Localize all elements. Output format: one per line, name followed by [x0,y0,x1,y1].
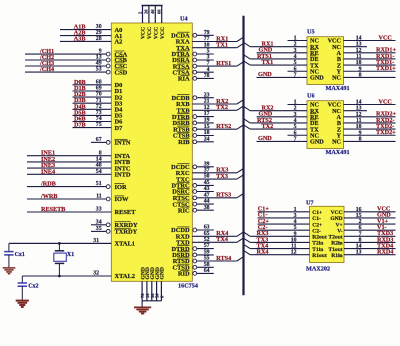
value label MAX491 of U5 [326,85,350,92]
svg-text:VCC: VCC [379,34,392,41]
wire/pin GND 4 of U4 [155,267,161,301]
svg-text:59: 59 [204,250,210,256]
power rail VCC top [142,5,163,7]
svg-text:XTAL2: XTAL2 [115,273,135,280]
svg-text:57: 57 [204,243,210,249]
svg-text:45: 45 [204,180,210,186]
svg-text:GND: GND [258,71,272,78]
svg-text:66: 66 [157,9,162,14]
svg-text:/RDB: /RDB [40,181,56,188]
wire/pin 65 RXD net RX4 [176,230,244,240]
svg-text:/CH4: /CH4 [39,66,54,73]
wire/pin 58 CTSD [173,262,214,272]
wire/pin 49 CSC net /CH3 [25,60,128,70]
ground for Cx1 [3,268,16,274]
svg-text:1: 1 [294,207,297,213]
wire/pin 31 XTAL1 [9,238,135,248]
svg-text:RIB: RIB [178,139,190,146]
svg-text:VCC: VCC [154,27,160,39]
wire/pin 8 NC of U5 [332,72,395,81]
node junction crystal top [58,242,61,245]
svg-text:14: 14 [356,244,362,250]
wire/pin VCC 1 of U4 [137,6,146,40]
wire/pin 3 RE of U6 [257,111,319,121]
wire/pin 4 CTSA [173,67,214,77]
svg-text:T1in: T1in [312,247,323,253]
svg-text:19: 19 [204,118,210,124]
svg-text:U7: U7 [306,199,314,206]
svg-text:C2-: C2- [312,228,321,234]
wire/pin 11 T1in of U7 net TX4 [244,242,324,252]
svg-text:GND: GND [310,75,324,82]
svg-text:A2: A2 [115,39,123,46]
wire/pin GND 5 of U4 [159,267,165,301]
svg-text:77: 77 [204,36,210,42]
wire/pin 77 RXA net RX1 [176,35,244,45]
wire/pin 9 CSA net /CH1 [25,48,128,58]
svg-text:3: 3 [294,48,297,54]
svg-text:50: 50 [204,174,210,180]
wire/pin 50 TXC net TX3 [176,173,243,183]
svg-text:12: 12 [356,112,362,118]
wire/pin 69 D1 net D1B [73,85,123,95]
wire/pin 4 DE of U5 [244,53,319,63]
wire/pin 10 Z of U5 [337,59,396,69]
wire/pin 11 B of U6 [337,117,396,127]
svg-text:TXRDY: TXRDY [115,229,138,236]
svg-text:2: 2 [359,219,362,225]
svg-text:43: 43 [204,186,210,192]
wire/pin 68 D0 net D0B [73,79,123,89]
wire/pin 3 RE of U5 [257,47,319,57]
wire/pin 7 T2out of U7 net TXD3 [329,230,396,240]
svg-text:Cx1: Cx1 [15,252,25,258]
wire/pin 2 RX of U5 [244,40,320,50]
svg-text:7: 7 [294,136,297,142]
wire/pin 74 D6 net D6B [73,116,124,126]
svg-text:18: 18 [204,130,210,136]
wire/pin 21 RXB net RX2 [176,98,243,108]
svg-text:RTS3: RTS3 [216,192,231,199]
svg-text:5: 5 [294,124,297,130]
svg-text:16: 16 [356,207,362,213]
wire/pin 75 D7 net D7B [73,122,124,132]
svg-text:33: 33 [96,207,102,213]
svg-text:R2out: R2out [312,235,327,241]
wire/pin 18 CTSB [173,130,214,140]
wire/pin 12 TXB net TX2 [176,104,243,114]
svg-text:RTS4: RTS4 [216,255,231,262]
svg-text:14: 14 [96,157,102,163]
wire/pin 5 TX of U6 [244,123,320,133]
wire/pin 1 NC of U6 [288,100,319,109]
svg-text:D7B: D7B [74,122,86,129]
svg-text:RX4: RX4 [257,249,269,256]
svg-text:4: 4 [294,118,297,124]
wire/pin 2 V+ of U7 net V1+ [335,218,395,228]
wire/pin 14 INTB net INE2 [27,156,131,166]
wire/pin 11 B of U5 [337,53,396,63]
svg-text:U4: U4 [180,16,188,23]
svg-text:VCC: VCC [141,27,147,39]
svg-text:11: 11 [291,244,297,250]
wire/pin 1 NC of U5 [288,36,319,45]
wire/pin 13 R1in of U7 net RXD4 [331,249,395,259]
wire/pin 4 DE of U6 [244,117,319,127]
wire/pin 48 INTC net INE3 [27,162,131,172]
svg-text:68: 68 [96,79,102,85]
svg-text:/WRB: /WRB [40,193,58,200]
wire/pin 55 RTSD net RTS4 [173,255,244,265]
wire/pin 78 RIA [178,73,214,83]
wire/pin 70 D2 net D2B [73,91,123,101]
svg-text:RIA: RIA [178,76,190,83]
wire/pin 32 XTAL2 [22,270,135,280]
svg-text:A3B: A3B [74,35,86,42]
wire/pin 16 VCC of U7 net VCC [331,206,396,216]
wire/pin 13 CSB net /CH2 [25,54,128,64]
wire/pin 5 DTRA [171,49,213,59]
wire/pin 6 NC of U6 [288,130,319,139]
value label 16C754 [178,282,198,289]
svg-text:10: 10 [204,42,210,48]
svg-text:C1-: C1- [312,216,321,222]
svg-text:3: 3 [207,55,210,61]
wire/pin 33 RESET net RESETB [27,206,136,216]
svg-text:34: 34 [96,219,102,225]
svg-text:TX1: TX1 [262,59,274,66]
svg-text:11: 11 [96,194,102,200]
svg-text:8: 8 [359,136,362,142]
svg-text:10: 10 [356,60,362,66]
wire/pin 34 RXRDY [91,219,138,229]
svg-text:INE4: INE4 [41,168,55,175]
wire/pin GND 2 of U4 [145,267,151,301]
wire/pin 38 RIC [178,205,214,215]
wire/pin 12 A of U6 [337,111,397,121]
wire/pin 39 DCDC [171,161,214,171]
value label MAX491 of U6 [326,149,350,156]
wire/pin 9 Y of U6 [337,129,397,139]
svg-text:IOR: IOR [115,184,127,191]
wire/pin 79 DCDA [171,30,214,40]
svg-text:74: 74 [96,116,102,122]
designator U5 [307,29,315,36]
svg-text:64: 64 [204,268,210,274]
wire GND bus bottom [142,301,161,307]
svg-text:2: 2 [294,42,297,48]
wire/pin 10 T2in of U7 net TX3 [244,236,324,246]
wire/pin 30 A0 net A1B [60,24,122,34]
svg-text:55: 55 [204,256,210,262]
wire/pin 35 TXRDY [91,226,138,236]
wire/pin 17 DTRB [172,111,214,121]
svg-text:15: 15 [356,213,362,219]
svg-text:TX2: TX2 [262,123,274,130]
svg-text:9: 9 [359,66,362,72]
svg-text:47: 47 [204,192,210,198]
svg-text:VCC: VCC [147,27,153,39]
wire/pin VCC 2 of U4 [144,6,153,40]
svg-text:8: 8 [359,237,362,243]
svg-text:TX4: TX4 [216,236,228,243]
svg-text:RIC: RIC [178,207,190,214]
svg-text:75: 75 [96,122,102,128]
svg-text:35: 35 [96,226,102,232]
wire/pin 1 C1+ of U7 net C1+ [258,206,323,216]
svg-text:R2in: R2in [331,241,342,247]
svg-text:GND: GND [330,216,342,222]
IC U5 MAX491 body [307,37,344,85]
svg-text:3: 3 [294,112,297,118]
svg-text:R1out: R1out [312,253,327,259]
svg-text:5: 5 [294,225,297,231]
svg-text:NC: NC [332,75,341,82]
svg-text:4: 4 [294,219,297,225]
wire/pin 3 C1- of U7 net C1- [258,212,322,222]
IC U4 16C754 quad UART body [111,23,192,281]
svg-text:VCC: VCC [160,27,166,39]
svg-text:RTS2: RTS2 [216,123,231,130]
ground for Cx2 [16,301,29,307]
svg-text:16C754: 16C754 [178,282,198,289]
svg-text:46: 46 [150,9,155,14]
wire/pin 59 DSRD [172,250,214,260]
svg-text:8: 8 [99,150,102,156]
svg-text:10: 10 [291,237,297,243]
svg-text:12: 12 [356,48,362,54]
svg-text:TX1: TX1 [216,42,228,49]
wire/pin 28 A2 net A3B [60,35,122,45]
svg-text:38: 38 [204,205,210,211]
wire/pin 13 NC of U5 [332,42,367,51]
wire XTAL1 net [9,242,111,244]
ground symbol below U4 [134,307,151,313]
wire/pin 4 C2+ of U7 net C2+ [258,218,323,228]
designator U7 [306,199,314,206]
svg-text:52: 52 [204,237,210,243]
wire/pin 64 RID [178,268,214,278]
wire XTAL2 net [22,275,111,277]
svg-text:C1+: C1+ [312,210,322,216]
svg-text:U5: U5 [307,29,315,36]
svg-text:26: 26 [144,9,149,14]
svg-text:79: 79 [204,30,210,36]
svg-text:GND: GND [160,267,166,279]
svg-text:4: 4 [294,54,297,60]
wire/pin 8 INTA net INE1 [27,150,130,160]
svg-text:X1: X1 [67,252,74,258]
designator U6 [307,93,315,100]
svg-text:13: 13 [356,106,362,112]
svg-text:58: 58 [204,262,210,268]
wire/pin 5 C2- of U7 net C2- [258,224,322,234]
svg-text:28: 28 [96,36,102,42]
wire/pin 23 DCDB [171,92,213,102]
svg-text:10: 10 [356,124,362,130]
svg-text:15: 15 [204,124,210,130]
svg-text:TX3: TX3 [216,173,228,180]
svg-text:RESETB: RESETB [41,206,65,213]
svg-text:D7: D7 [115,125,124,132]
svg-text:7: 7 [294,72,297,78]
wire/pin 11 IOW net /WRB [27,193,129,203]
svg-text:49: 49 [96,61,102,67]
svg-text:VCC: VCC [331,210,343,216]
wire/pin 15 RTSB net RTS2 [173,123,243,133]
wire/pin 14 VCC of U5 [328,34,396,44]
svg-text:54: 54 [96,169,102,175]
IC U7 MAX202 body [310,206,345,262]
wire/pin 47 RTSC net RTS3 [173,192,244,202]
wire/pin 3 DSRA [172,55,214,65]
wire/pin 8 R2in of U7 net RXD3 [331,236,395,246]
wire/pin 7 GND of U6 [257,135,325,145]
svg-text:2: 2 [294,106,297,112]
value label MAX202 [306,266,330,273]
svg-text:R1in: R1in [331,253,342,259]
svg-text:NC: NC [332,139,341,146]
svg-text:11: 11 [356,54,362,60]
wire/pin 45 DTRC [171,180,213,190]
svg-text:6: 6 [294,130,297,136]
svg-text:7: 7 [359,231,362,237]
svg-text:44: 44 [204,199,210,205]
wire/pin 29 A1 net A2B [60,30,122,40]
wire/pin 53 CSD net /CH4 [25,66,128,76]
svg-text:73: 73 [96,110,102,116]
wire/pin 37 RXC net RX3 [176,167,244,177]
svg-text:14: 14 [356,36,362,42]
wire/pin GND 1 of U4 [140,267,146,301]
svg-text:T2out: T2out [329,235,343,241]
svg-text:TXD1+: TXD1+ [376,65,396,72]
wire/pin 6 NC of U5 [288,66,319,75]
svg-text:VCC: VCC [379,98,392,105]
svg-text:MAX491: MAX491 [326,85,350,92]
svg-text:RID: RID [178,271,190,278]
capacitor Cx2 [18,276,39,300]
svg-text:8: 8 [359,72,362,78]
svg-text:GND: GND [258,135,272,142]
svg-text:V-: V- [337,228,343,234]
wire/pin 71 D3 net D3B [73,97,123,107]
svg-text:37: 37 [204,167,210,173]
node junction crystal bottom [58,275,61,278]
wire/pin 9 R2out of U7 net RX3 [244,230,327,240]
svg-text:7: 7 [207,61,210,67]
wire/pin 51 IOR net /RDB [27,181,127,191]
svg-text:71: 71 [96,98,102,104]
svg-text:48: 48 [96,163,102,169]
wire/pin 2 RX of U6 [244,104,320,114]
wire/pin 6 V- of U7 net V1- [337,224,395,234]
wire/pin VCC 3 of U4 [150,6,159,40]
svg-text:51: 51 [96,181,102,187]
svg-text:1: 1 [294,36,297,42]
wire/pin 12 A of U5 [337,47,397,57]
svg-text:RESET: RESET [115,209,137,216]
wire/pin 72 D4 net D4B [73,103,124,113]
svg-text:11: 11 [356,118,362,124]
wire/pin 14 T1out of U7 net TXD4 [329,242,396,252]
svg-text:T2in: T2in [312,241,323,247]
wire/pin 10 Z of U6 [337,123,396,133]
wire/pin VCC 4 of U4 [157,6,166,40]
wire/pin 44 CTSC [173,199,214,209]
svg-text:RTS1: RTS1 [216,60,231,67]
svg-text:13: 13 [356,250,362,256]
wire/pin 24 RIB [178,136,214,146]
bus vertical net line [242,16,244,295]
svg-text:TXD2+: TXD2+ [376,129,396,136]
svg-text:XTAL1: XTAL1 [115,241,135,248]
wire/pin 13 NC of U6 [332,106,367,115]
svg-text:1: 1 [294,100,297,106]
wire/pin 52 TXD net TX4 [176,236,243,246]
wire/pin 9 Y of U5 [337,65,397,75]
svg-text:V+: V+ [335,222,342,228]
svg-text:U6: U6 [307,93,315,100]
capacitor Cx1 [4,243,25,267]
wire/pin 19 DSRB [173,118,214,128]
svg-text:13: 13 [356,42,362,48]
svg-text:9: 9 [359,130,362,136]
wire/pin 7 RTSA net RTS1 [173,60,244,70]
svg-text:12: 12 [204,105,210,111]
svg-text:6: 6 [359,225,362,231]
svg-text:TX2: TX2 [216,104,228,111]
wire/pin 7 GND of U5 [257,71,325,81]
wire/pin 73 D5 net D5B [73,109,123,119]
wire/pin 43 DSRC [172,186,214,196]
svg-text:23: 23 [204,92,210,98]
svg-text:14: 14 [356,100,362,106]
wire/pin 12 R1out of U7 net RX4 [244,249,327,259]
svg-text:T1out: T1out [329,247,343,253]
svg-text:72: 72 [96,104,102,110]
svg-text:12: 12 [291,250,297,256]
wire/pin 15 GND of U7 net GND [330,212,395,222]
svg-text:69: 69 [96,86,102,92]
svg-text:70: 70 [96,92,102,98]
wire/pin 57 DTRD [171,243,213,253]
svg-text:3: 3 [294,213,297,219]
designator U4 [180,16,188,23]
svg-text:5: 5 [294,60,297,66]
svg-text:4: 4 [207,67,210,73]
svg-text:17: 17 [204,111,210,117]
svg-text:Cx2: Cx2 [28,284,38,290]
wire/pin 5 TX of U5 [244,59,320,69]
svg-text:MAX202: MAX202 [306,266,330,273]
wire/pin 67 INTN [91,137,131,147]
svg-text:MAX491: MAX491 [326,149,350,156]
wire/pin 63 DCDD [171,225,214,235]
svg-text:C2+: C2+ [312,222,322,228]
crystal X1 [54,243,74,276]
svg-text:21: 21 [204,99,210,105]
svg-text:53: 53 [96,67,102,73]
svg-text:INTN: INTN [115,140,131,147]
svg-text:6: 6 [294,66,297,72]
wire/pin 10 TXA net TX1 [176,42,243,52]
svg-text:INTD: INTD [115,172,131,179]
svg-text:78: 78 [204,73,210,79]
wire/pin 14 VCC of U6 [328,98,396,108]
wire/pin 54 INTD net INE4 [27,168,131,178]
IC U6 MAX491 body [307,101,344,149]
